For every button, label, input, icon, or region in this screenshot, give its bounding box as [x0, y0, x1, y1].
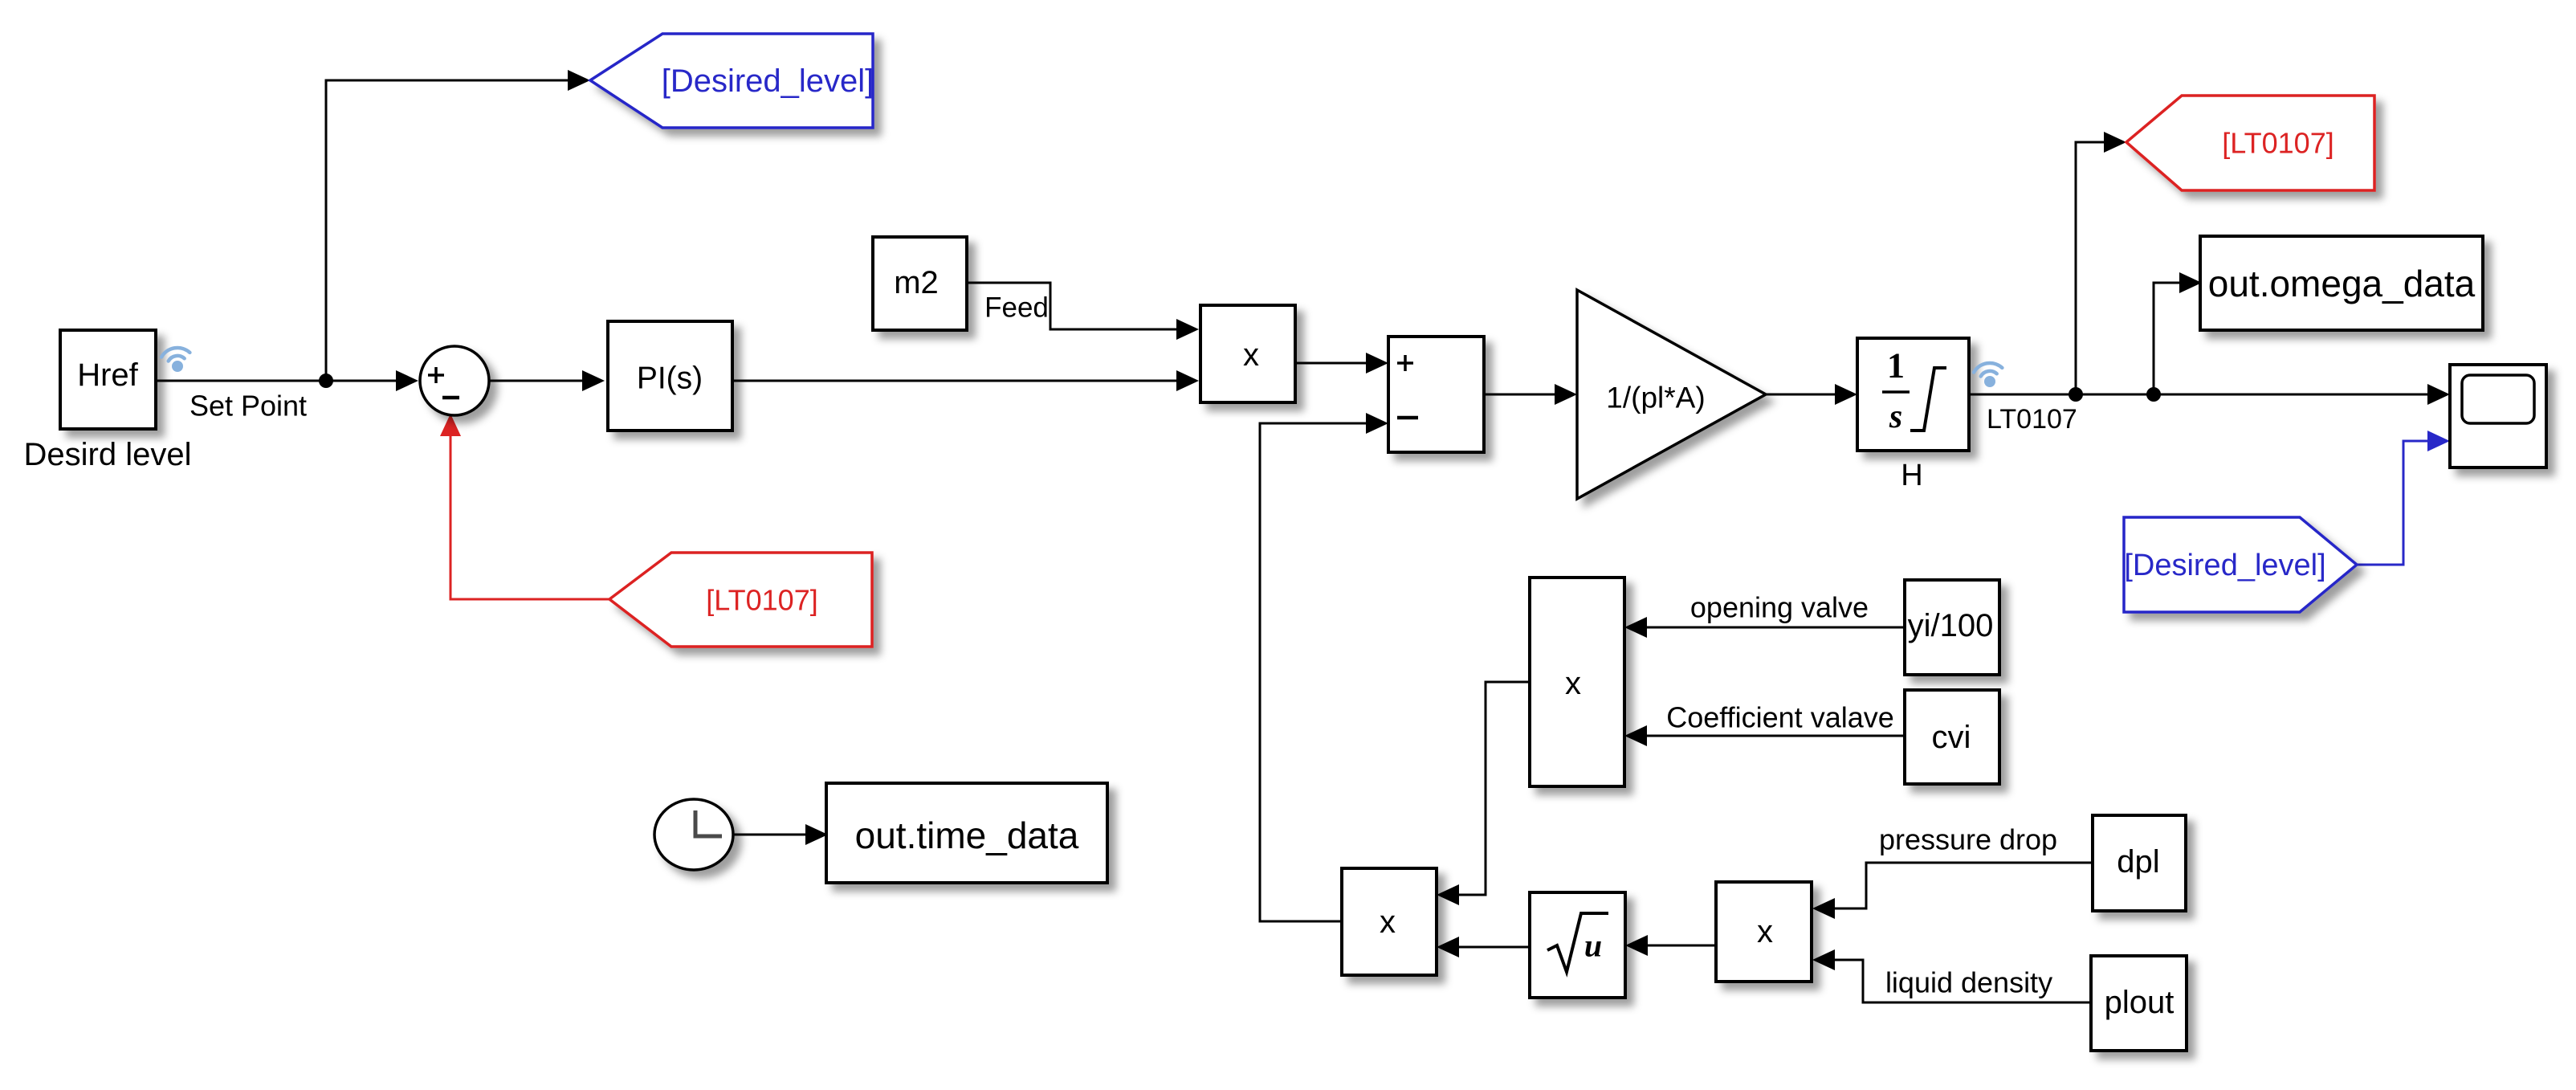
sum S1	[420, 346, 489, 415]
svg-text:x: x	[1757, 914, 1773, 949]
svg-text:Desird level: Desird level	[24, 437, 192, 472]
svg-text:out.omega_data: out.omega_data	[2208, 263, 2476, 304]
svg-text:x: x	[1243, 337, 1259, 373]
block PI(s) controller	[608, 321, 732, 431]
wire S2 to gain	[1484, 384, 1577, 405]
block Href constant	[60, 330, 156, 429]
product X3 tall	[1530, 578, 1624, 786]
sqrt block	[1530, 892, 1625, 998]
svg-text:PI(s): PI(s)	[637, 361, 703, 396]
scope	[2450, 365, 2546, 467]
node J1 branch	[319, 374, 333, 388]
wire sum S1 to PI	[489, 370, 605, 391]
svg-text:[LT0107]: [LT0107]	[2222, 127, 2333, 160]
svg-text:Set Point: Set Point	[190, 390, 307, 423]
svg-text:[Desired_level]: [Desired_level]	[662, 63, 874, 99]
svg-text:opening valve: opening valve	[1690, 591, 1869, 624]
wire J2 up to goto LT0107	[2076, 132, 2126, 394]
svg-text:[Desired_level]: [Desired_level]	[2124, 549, 2325, 582]
wire X1 to sum S2 plus	[1295, 353, 1388, 374]
from tag [Desired_level] bottom right	[2124, 517, 2357, 612]
wireless icon W1	[161, 348, 190, 372]
svg-text:H: H	[1901, 459, 1922, 492]
svg-text:out.time_data: out.time_data	[855, 814, 1079, 856]
wire dpl to product X4 (pressure drop)	[1812, 863, 2093, 919]
goto tag [LT0107] top right	[2126, 96, 2374, 190]
from tag [LT0107] left	[609, 553, 872, 647]
svg-text:u: u	[1584, 928, 1602, 964]
wire branch to goto Desired_level	[326, 70, 590, 381]
svg-text:plout: plout	[2105, 985, 2175, 1020]
block plout	[2091, 956, 2187, 1051]
wire blue from tag to scope	[2357, 431, 2450, 565]
wire sqrt to product X2	[1437, 937, 1530, 957]
wire cvi to product X3 (Coefficient valave)	[1624, 725, 1905, 746]
svg-text:1: 1	[1887, 346, 1905, 386]
wire red from tag LT0107 to sum S1	[440, 414, 609, 599]
svg-text:liquid density: liquid density	[1885, 966, 2052, 999]
svg-text:x: x	[1380, 904, 1396, 940]
wire integrator to scope (LT0107 line)	[1969, 384, 2450, 405]
node J2	[2069, 387, 2083, 402]
svg-text:cvi: cvi	[1932, 720, 1971, 755]
wire yi/100 to product X3 (opening valve)	[1624, 617, 1905, 638]
product X4	[1716, 882, 1812, 982]
svg-text:[LT0107]: [LT0107]	[706, 584, 817, 617]
wire J3 up to out.omega_data	[2154, 272, 2202, 394]
node J3	[2146, 387, 2161, 402]
wire PI to product X1	[732, 370, 1199, 391]
gain 1/(pl*A)	[1577, 290, 1766, 499]
integrator H (limited)	[1857, 338, 1969, 451]
svg-text:yi/100: yi/100	[1908, 608, 1994, 643]
wire Href to sum S1	[156, 370, 418, 391]
block yi/100	[1905, 580, 1999, 675]
svg-text:s: s	[1889, 398, 1902, 435]
svg-text:pressure drop: pressure drop	[1879, 823, 2057, 856]
wire plout to product X4 (liquid density)	[1812, 949, 2091, 1002]
svg-text:Coefficient valave: Coefficient valave	[1666, 701, 1894, 734]
wire clock to out.time_data	[733, 824, 828, 845]
block cvi	[1905, 690, 1999, 784]
svg-text:Href: Href	[77, 357, 138, 393]
wire X3 to product X2	[1437, 682, 1530, 905]
svg-text:x: x	[1565, 666, 1581, 701]
clock	[654, 799, 733, 870]
wire X2 to sum S2 minus	[1260, 413, 1388, 921]
svg-text:Feed: Feed	[984, 292, 1049, 324]
wire product X4 to sqrt	[1625, 935, 1716, 956]
svg-text:dpl: dpl	[2117, 844, 2159, 880]
product X2	[1342, 868, 1437, 975]
block out.time_data	[826, 783, 1107, 883]
sum block S2	[1388, 337, 1484, 452]
svg-text:1/(pl*A): 1/(pl*A)	[1606, 382, 1705, 414]
svg-text:m2: m2	[894, 265, 939, 300]
block dpl	[2093, 815, 2186, 911]
wire m2 to product X1 (Feed)	[967, 283, 1199, 340]
wireless icon W2	[1974, 363, 2002, 387]
svg-text:LT0107: LT0107	[1987, 404, 2077, 435]
wire gain to integrator	[1766, 384, 1857, 405]
product X1	[1200, 305, 1295, 402]
block m2 constant	[873, 237, 967, 330]
block out.omega_data	[2200, 236, 2483, 330]
goto tag [Desired_level] top	[590, 34, 874, 128]
